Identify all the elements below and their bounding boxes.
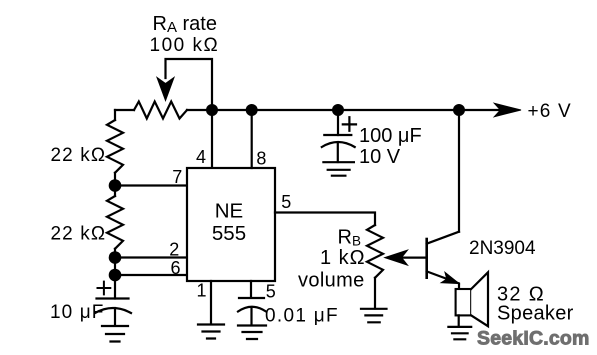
wire pin 8: [251, 110, 253, 168]
wire lower left rail: [114, 249, 116, 299]
node junction dot pin4 rail: [206, 104, 218, 116]
wire pin 6: [115, 274, 187, 276]
svg-text:+6 V: +6 V: [528, 101, 572, 122]
svg-text:100 μF: 100 μF: [359, 125, 422, 147]
wire pin 5 to RB: [275, 213, 375, 226]
svg-text:4: 4: [196, 147, 206, 167]
capacitor 10uF curved plate: [95, 308, 131, 313]
capacitor 10uF top plate: [97, 297, 129, 299]
svg-text:2: 2: [169, 239, 179, 259]
node junction dot collector rail: [453, 104, 465, 116]
speaker body rect: [456, 289, 472, 315]
svg-text:7: 7: [172, 167, 182, 187]
speaker horn: [471, 272, 488, 326]
potentiometer wiper arrow: [157, 78, 174, 101]
svg-text:2N3904: 2N3904: [469, 238, 536, 259]
wire pot wiper to vcc rail: [166, 59, 213, 168]
+6V supply arrow: [494, 103, 521, 116]
wire collector to rail: [458, 110, 460, 232]
arrow RB wiper (points left at pot): [385, 250, 408, 265]
svg-text:0.01 μF: 0.01 μF: [265, 306, 339, 327]
svg-text:volume: volume: [298, 270, 365, 292]
capacitor 100uF plus sign: [343, 117, 356, 131]
svg-text:10 μF: 10 μF: [50, 302, 104, 323]
node junction dot pin8 rail: [246, 104, 258, 116]
ground pin 1: [198, 325, 224, 339]
svg-text:5: 5: [266, 282, 276, 302]
node junction dot pin6: [109, 269, 122, 282]
wire cap 0.01 to ground: [250, 308, 252, 326]
svg-text:100 kΩ: 100 kΩ: [150, 35, 220, 56]
resistor RB body (vertical zigzag): [367, 225, 383, 278]
capacitor 0.01uF curved plate: [238, 307, 266, 312]
capacitor 10uF plus sign: [98, 282, 111, 295]
wire top rail: [115, 109, 500, 111]
ground RB: [361, 309, 387, 323]
wire RB to ground: [374, 278, 376, 309]
node junction dot cap100 rail: [332, 104, 344, 116]
node junction dot pin7: [109, 179, 122, 192]
svg-text:NE: NE: [215, 200, 243, 223]
wire cap 100uF to ground: [337, 144, 339, 163]
wire between 22k resistors: [114, 173, 116, 196]
capacitor 100uF top plate: [324, 134, 351, 136]
svg-text:SeekIC.com: SeekIC.com: [477, 328, 590, 350]
svg-text:10 V: 10 V: [359, 146, 401, 168]
svg-text:1: 1: [197, 281, 207, 301]
wire cap 10uF to ground: [114, 308, 116, 326]
svg-text:555: 555: [212, 222, 246, 245]
emitter arrowhead: [441, 272, 459, 283]
svg-text:8: 8: [256, 148, 266, 168]
transistor Q1 2N3904 base bar: [425, 239, 428, 278]
svg-text:Speaker: Speaker: [497, 303, 574, 325]
ground 0.01uF: [238, 326, 266, 340]
capacitor 100uF curved plate: [322, 142, 355, 147]
wire pin 7: [115, 184, 187, 186]
svg-text:5: 5: [281, 192, 291, 212]
ground 100uF: [323, 162, 354, 176]
svg-text:22 kΩ: 22 kΩ: [51, 224, 107, 245]
ground speaker: [448, 327, 471, 339]
resistor 22k lower (vertical zigzag): [107, 196, 123, 249]
svg-text:1 kΩ: 1 kΩ: [320, 247, 366, 269]
capacitor 0.01uF top plate: [239, 297, 264, 299]
resistor 22k upper (vertical zigzag): [107, 120, 123, 173]
transistor collector diagonal: [427, 232, 459, 244]
wire base to RB wiper: [401, 257, 427, 259]
wire pin 5 bottom: [250, 281, 252, 297]
svg-text:22 kΩ: 22 kΩ: [51, 145, 107, 166]
svg-text:6: 6: [171, 258, 181, 278]
wire speaker to ground: [458, 315, 460, 326]
label RA rate 100 kOhm: [150, 13, 220, 56]
node junction dot pin2: [109, 251, 122, 264]
wire pin 2: [115, 256, 187, 258]
wire left rail top corner: [114, 110, 116, 120]
op-amp/IC NE555 body: [187, 168, 275, 281]
wire cap 100uF stem: [337, 110, 339, 135]
transistor emitter diagonal: [427, 271, 459, 289]
ground 10uF: [102, 326, 128, 342]
svg-text:RA rate: RA rate: [153, 13, 218, 36]
resistor RA body (horizontal zigzag): [134, 102, 187, 119]
wire pin 1: [210, 281, 212, 324]
